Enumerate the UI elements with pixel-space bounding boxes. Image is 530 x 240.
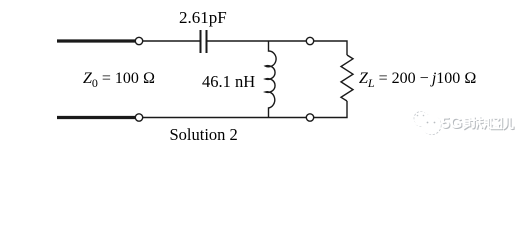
node: left top terminal circle <box>135 37 142 44</box>
wire: top conductor from left terminal to capacitor <box>135 40 200 42</box>
node: right top terminal circle <box>306 37 313 44</box>
char shadow: she (射) <box>465 120 471 130</box>
node: left bottom terminal circle <box>135 114 142 121</box>
wire: bottom conductor from left terminal to load corner, corner up to resistor <box>135 101 347 118</box>
char shadow: quan (圈) <box>492 119 503 129</box>
watermark text: Chinese characters (drawn, gray shadow + white top) <box>0 0 530 147</box>
label: capacitor value 2.61pF <box>179 9 227 26</box>
label: ZL = 200 - j100 ohm <box>359 71 477 89</box>
resistor ZL zigzag <box>341 55 353 101</box>
wire: bottom feed line (thick, Z0 line bottom conductor) <box>57 116 135 119</box>
char: er (儿) <box>504 118 513 128</box>
char: pin (频) <box>477 117 483 128</box>
watermark text: 5G (white top copy) <box>441 116 462 132</box>
wire: top feed line (thick, Z0 line top conductor) <box>57 39 135 42</box>
wire: top conductor from capacitor to load corner, with corner down to resistor <box>207 41 347 55</box>
capacitor C (2.61pF) series element <box>201 30 207 53</box>
watermark logo: two bubbles (white with gray shadow) <box>414 111 441 134</box>
label: inductor value 46.1 nH <box>202 74 255 91</box>
char shadow: pin (频) <box>478 118 484 129</box>
label: Solution 2 <box>170 127 238 144</box>
char: she (射) <box>464 119 470 129</box>
node: right bottom terminal circle <box>306 114 313 121</box>
label: Z0 = 100 ohm <box>83 71 155 89</box>
char shadow: er (儿) <box>505 119 514 129</box>
inductor L (46.1 nH) shunt element <box>265 41 276 118</box>
char: quan (圈) <box>491 118 502 128</box>
watermark text: 5G (gray shadow copy) <box>442 117 463 133</box>
